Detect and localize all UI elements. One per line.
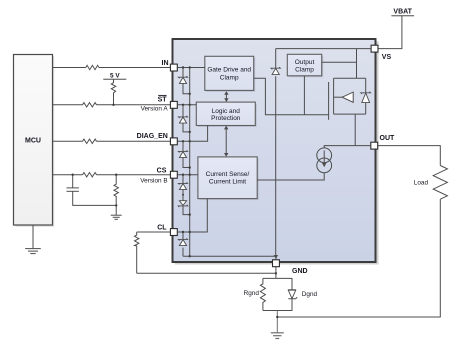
- double arrow Logic / Current Sense: [225, 129, 227, 154]
- IC U1 (high-side switch) body: [173, 39, 379, 265]
- node ST/bus: [189, 104, 191, 106]
- wire R2 to ST pin: [97, 104, 171, 106]
- svg-text:Current Limit: Current Limit: [209, 179, 246, 186]
- transistor Q1 source lead: [334, 96, 343, 98]
- svg-text:VBAT: VBAT: [393, 9, 412, 16]
- node IN/bus: [189, 66, 191, 68]
- ESD bus wire: [189, 68, 191, 257]
- svg-text:Clamp: Clamp: [295, 67, 314, 74]
- node D2 anode: [189, 131, 191, 133]
- node CS/D4: [182, 174, 184, 176]
- svg-text:Dgnd: Dgnd: [302, 291, 318, 298]
- wire OUT pin internal: [324, 146, 371, 148]
- node CS RC join: [115, 204, 117, 206]
- block: Current Sense / Current Limit: [198, 157, 259, 200]
- node CL-gnd wire to GND pin: [275, 272, 277, 274]
- arrowhead Logic to Gate Drive (up): [224, 91, 228, 95]
- current source CS1 circles: [317, 148, 332, 173]
- node DIAG/D3: [182, 140, 184, 142]
- wire MCU to IN: [53, 67, 86, 69]
- zener diode D6 symbol (CL): [178, 238, 187, 245]
- node IN/D1: [182, 66, 184, 68]
- diode D6 branch (CL): [182, 232, 184, 239]
- diode D3 branch (DIAG_EN): [182, 141, 184, 151]
- wire MCU to DIAG_EN: [53, 140, 83, 142]
- diode D2 branch (ST): [182, 105, 184, 117]
- node bus/GND rail: [189, 255, 191, 257]
- pin square VS: [371, 45, 378, 52]
- arrowhead Gate Drive to Logic (down): [224, 98, 228, 102]
- block: Output Clamp: [287, 54, 323, 77]
- svg-text:GND: GND: [292, 268, 308, 275]
- wire load bottom to ground node: [277, 199, 440, 317]
- zener diode DZ1 symbol (VS clamp): [271, 67, 280, 74]
- transistor Q1 DMOS cell outline: [334, 77, 366, 79]
- svg-text:CL: CL: [157, 225, 167, 232]
- zener DZ1 bottom lead down to GND arrow: [275, 76, 277, 255]
- pin square OUT: [371, 142, 378, 149]
- VS rail wire: [276, 48, 371, 50]
- svg-text:Rgnd: Rgnd: [244, 290, 260, 297]
- svg-text:VS: VS: [382, 54, 392, 61]
- svg-text:CS: CS: [157, 168, 167, 175]
- node DIAG/bus: [189, 140, 191, 142]
- wire CL resistor to GND node: [137, 272, 276, 274]
- svg-text:Clamp: Clamp: [220, 75, 239, 82]
- diode Dgnd: [291, 278, 293, 289]
- svg-text:Output: Output: [295, 59, 315, 66]
- svg-text:Logic and: Logic and: [212, 108, 241, 115]
- node CL/D6: [182, 231, 184, 233]
- wire R1 to IN pin: [99, 67, 170, 69]
- wire CL pin to resistor: [137, 231, 171, 233]
- zener diode D1 symbol (IN): [178, 76, 187, 83]
- wire IN pin to Gate Drive: [177, 67, 205, 69]
- pin square DIAG_EN: [170, 138, 177, 145]
- wire CS pin to Current Sense: [177, 174, 198, 176]
- body diode DB1 symbol (DMOS): [361, 92, 371, 103]
- block: Gate Drive and Clamp: [205, 56, 255, 92]
- ground (system): [271, 332, 284, 334]
- node CS resistor junction: [115, 174, 117, 176]
- junction dots (internal): [182, 66, 191, 257]
- wire MCU to CS: [53, 174, 83, 176]
- junction dots (left externals): [72, 104, 118, 207]
- wire Gate Drive output to gate node: [254, 78, 329, 115]
- svg-text:Gate Drive and: Gate Drive and: [207, 67, 251, 74]
- zener diode D4 symbol (CS upper): [178, 182, 187, 189]
- wire internal GND rail to GND pin: [275, 256, 277, 259]
- wire DIAG_EN pin to Logic bottom: [177, 126, 207, 142]
- svg-text:Protection: Protection: [211, 115, 241, 122]
- pin square ST: [170, 101, 177, 108]
- resistor R5 (5V pull-up to ST): [111, 79, 115, 105]
- node load return junction: [276, 316, 278, 318]
- wire GND pin down: [275, 267, 277, 279]
- wire CL pin to Current Sense bottom: [177, 199, 207, 232]
- node ST/D2: [182, 104, 184, 106]
- resistor R4 (CS series): [83, 173, 97, 177]
- wire MCU to ST: [53, 104, 83, 106]
- transistor Q1 gate bar: [328, 82, 330, 120]
- svg-text:ST: ST: [158, 97, 168, 104]
- wire to system ground: [276, 311, 278, 333]
- VBAT supply bar: [391, 15, 414, 17]
- svg-text:MCU: MCU: [25, 137, 41, 144]
- diode Dgnd symbol: [288, 290, 297, 299]
- resistor R2 (ST series): [83, 103, 97, 107]
- wire VBAT to VS: [378, 16, 402, 49]
- diode D5 symbol (CS lower, pointing down): [178, 201, 188, 207]
- node D3 anode: [189, 166, 191, 168]
- zener diode D2 symbol (ST): [178, 116, 187, 123]
- node D4/D5 mid: [182, 194, 184, 196]
- svg-text:IN: IN: [162, 60, 169, 67]
- internal GND rail: [183, 255, 276, 257]
- diode D1 branch (IN): [182, 68, 184, 78]
- node CS cap junction: [72, 174, 74, 176]
- wire R4 to CS pin: [97, 174, 171, 176]
- current source CS1 arrowhead: [322, 163, 327, 167]
- diode D4 branch (CS upper): [182, 175, 184, 184]
- block: Logic and Protection: [196, 102, 256, 127]
- svg-text:Version B: Version B: [140, 178, 167, 185]
- arrowhead internal GND (down): [274, 255, 278, 259]
- diode D5 branch (CS lower): [183, 206, 190, 214]
- svg-text:Load: Load: [414, 180, 429, 187]
- zener DZ1 (VS to internal) top lead: [275, 49, 277, 68]
- 5V supply bar: [103, 78, 126, 80]
- pin square GND: [273, 260, 280, 267]
- node Rgnd/Dgnd top rail: [263, 277, 293, 279]
- svg-text:Version A: Version A: [141, 105, 169, 112]
- pin square IN: [170, 64, 177, 71]
- resistor R1 (IN series): [86, 65, 99, 69]
- node CL/bus: [189, 231, 191, 233]
- pin square CS: [170, 171, 177, 178]
- node D5 anode: [189, 213, 191, 215]
- zener diode D3 symbol (DIAG_EN): [178, 150, 187, 157]
- resistor Load: [433, 166, 447, 200]
- arrowhead Logic to Current Sense (down): [224, 153, 228, 157]
- svg-text:Current Sense/: Current Sense/: [206, 171, 250, 178]
- capacitor C1 (CS filter) plates: [72, 175, 74, 188]
- Rgnd/Dgnd bottom rail: [263, 310, 293, 312]
- pin square CL: [170, 229, 177, 236]
- resistor R7 (CL setting): [135, 232, 139, 273]
- wire DMOS to OUT: [354, 114, 356, 146]
- transistor Q1 source arrow (triangle): [342, 92, 353, 102]
- wire OUT to load: [378, 146, 441, 166]
- junction dots (right externals): [275, 272, 279, 318]
- arrowhead Current Sense to Logic (up): [224, 126, 228, 130]
- node ST pull-up junction: [112, 104, 114, 106]
- svg-text:DIAG_EN: DIAG_EN: [137, 133, 168, 140]
- wire MCU ground: [32, 225, 34, 248]
- MCU block: [14, 55, 55, 227]
- resistor R3 (DIAG_EN series): [83, 139, 97, 143]
- svg-text:OUT: OUT: [380, 135, 396, 142]
- ground (MCU): [25, 248, 41, 250]
- resistor R6 (CS to ground): [114, 175, 118, 215]
- resistor Rgnd: [260, 278, 265, 310]
- double arrow Gate Drive / Logic: [225, 94, 227, 100]
- svg-text:5 V: 5 V: [110, 73, 120, 80]
- wire VS branch down to DMOS: [356, 49, 358, 79]
- ground (CS filter): [111, 214, 122, 216]
- wire current source to Current Sense: [257, 173, 324, 180]
- wire ST pin to Logic: [177, 104, 196, 106]
- wire Output Clamp to gate node: [303, 76, 305, 115]
- node CS/bus: [189, 174, 191, 176]
- node D1 anode: [189, 93, 191, 95]
- wire R3 to DIAG_EN pin: [97, 140, 171, 142]
- wire Output Clamp to VS branch: [322, 61, 357, 63]
